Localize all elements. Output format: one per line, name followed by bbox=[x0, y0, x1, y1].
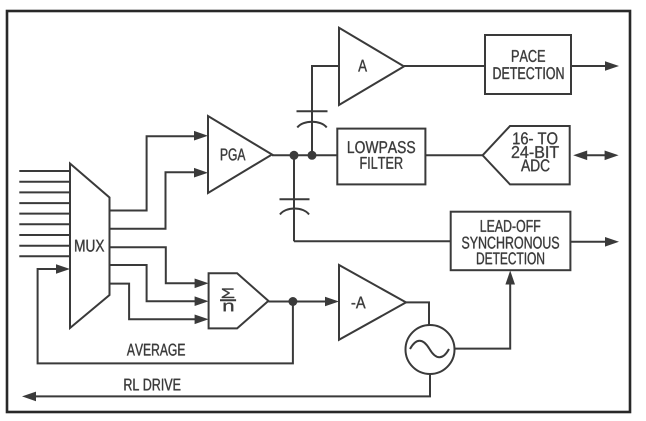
wire oscillator to lead-off up arrow bbox=[455, 271, 515, 349]
pace detection box bbox=[485, 35, 571, 94]
node junction dot left bbox=[290, 151, 299, 160]
wire A output to pace detection bbox=[404, 65, 485, 67]
wire pace detection output arrow bbox=[571, 61, 619, 71]
capacitor C2 lower bbox=[280, 155, 310, 241]
node AVERAGE label bbox=[127, 344, 185, 356]
wire mux-out3 to sigma in1 bbox=[110, 247, 209, 288]
wire PGA output to lowpass filter bbox=[272, 154, 337, 156]
wire sigma output to -A input bbox=[268, 297, 339, 307]
wire mux-out2 to PGA in2 bbox=[110, 168, 209, 229]
ADC block bbox=[483, 126, 570, 184]
wire oscillator to RL drive line bbox=[22, 374, 430, 401]
node junction dot sigma output bbox=[288, 297, 297, 306]
oscillator bbox=[406, 325, 455, 374]
op-amp A bbox=[339, 28, 404, 105]
wire ADC bidirectional arrow bbox=[573, 151, 618, 161]
node RL DRIVE label bbox=[124, 379, 180, 391]
wire mux-out4 to sigma in2 bbox=[110, 265, 209, 306]
lead-off synchronous detection box bbox=[451, 212, 571, 271]
wire -A output to oscillator bbox=[406, 302, 429, 325]
wire lead-off output arrow bbox=[570, 237, 619, 247]
wire mux-out5 to sigma in3 bbox=[110, 284, 209, 325]
mux bbox=[70, 164, 110, 329]
capacitor C1 upper bbox=[297, 66, 340, 155]
lowpass filter box bbox=[337, 129, 425, 185]
op-amp PGA bbox=[208, 116, 272, 193]
mux input lines bbox=[19, 171, 70, 256]
wire mux-out1 to PGA in1 bbox=[110, 131, 209, 211]
summation block sigma/n bbox=[209, 273, 269, 328]
node junction dot right bbox=[308, 151, 317, 160]
wire lead-off line bbox=[294, 240, 451, 242]
op-amp -A bbox=[339, 265, 406, 340]
wire lowpass filter to ADC bbox=[425, 154, 482, 156]
wire average feedback loop bbox=[38, 264, 293, 363]
